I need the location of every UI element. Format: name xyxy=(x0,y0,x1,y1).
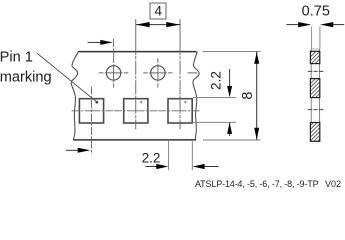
svg-text:2.2: 2.2 xyxy=(208,71,223,90)
svg-text:2.2: 2.2 xyxy=(142,150,161,165)
svg-text:0.75: 0.75 xyxy=(302,4,330,20)
svg-text:8: 8 xyxy=(240,92,256,100)
svg-text:V02: V02 xyxy=(325,179,341,189)
svg-text:ATSLP-14-4, -5, -6, -7, -8, -9: ATSLP-14-4, -5, -6, -7, -8, -9-TP xyxy=(195,179,319,189)
svg-text:marking: marking xyxy=(0,69,52,85)
svg-text:Pin 1: Pin 1 xyxy=(0,50,33,66)
svg-text:4: 4 xyxy=(154,4,162,19)
